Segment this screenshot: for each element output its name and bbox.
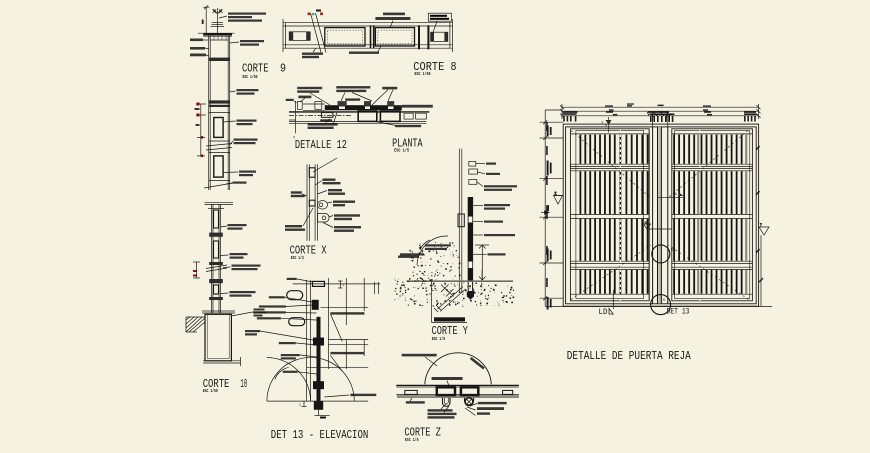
right tube pocket xyxy=(431,32,448,41)
detail circle 12 xyxy=(652,245,670,263)
hanging tick texts below line 3 center xyxy=(649,113,674,122)
svg-text:ESC 1/50: ESC 1/50 xyxy=(203,388,218,394)
weld band 2 xyxy=(209,100,230,103)
top head plate xyxy=(313,281,325,286)
column shaft xyxy=(209,36,230,190)
right annotation TUB LS D low xyxy=(239,171,256,177)
svg-text:12: 12 xyxy=(671,248,675,252)
annotation TIPS DE CHAPAS xyxy=(402,354,437,357)
hanging tick texts below line 3 left xyxy=(563,113,577,121)
section 9 cut slashes xyxy=(311,13,327,53)
svg-text:DET 13: DET 13 xyxy=(667,308,690,317)
annotation PL DIA xyxy=(478,402,507,404)
door outer frame double lines xyxy=(563,124,758,306)
right divider welds xyxy=(418,25,420,49)
white gaps in bar xyxy=(469,217,473,292)
dim line with arrows xyxy=(475,245,489,280)
annotation TUBULAR below cell2 xyxy=(349,52,379,54)
door bottom ground line xyxy=(545,306,772,308)
shaft weld bands xyxy=(209,233,223,237)
base top plate xyxy=(202,311,235,313)
annotation BARRA P xyxy=(477,412,490,414)
section flag marker right (Z) xyxy=(759,223,769,306)
hinge knuckle ellipse xyxy=(318,201,328,210)
anchor bolt diagonal xyxy=(434,285,466,313)
svg-text:4: 4 xyxy=(399,294,401,298)
label B with flag xyxy=(644,221,672,230)
mid tube rect xyxy=(309,200,315,206)
boxed label ANCLAJE xyxy=(432,281,468,322)
mullion gray infill xyxy=(658,127,661,304)
center mullion member B xyxy=(661,127,667,304)
swing diagonal dashed leaf2 bottom xyxy=(669,245,749,300)
tube cell 2 xyxy=(375,28,414,46)
annotation leaders xyxy=(294,90,393,105)
dome arc xyxy=(425,353,492,384)
carriage block left xyxy=(437,387,455,395)
hanging tick texts right end xyxy=(744,113,757,121)
svg-text:1: 1 xyxy=(675,192,677,196)
post double lines xyxy=(459,149,462,293)
annotation TUB LS D upper xyxy=(228,224,247,230)
left annotations xyxy=(285,191,305,231)
vertical bars leaf1 xyxy=(580,135,649,294)
annotation TUB DE CH mid page xyxy=(398,256,419,258)
annotation TEE CORRIDO right xyxy=(350,394,376,396)
latch half round xyxy=(318,214,330,223)
big roller 1 xyxy=(358,111,377,121)
inner window marks xyxy=(214,210,219,228)
tube cell 1 xyxy=(325,28,365,46)
wall double lines left xyxy=(307,164,318,241)
horizontal rails leaf1 xyxy=(570,134,649,294)
annotation DE SEGURID stack xyxy=(428,409,457,418)
rotated dim texts left chain xyxy=(547,126,552,310)
gray guide line xyxy=(481,270,483,288)
left diagonal hatch wall xyxy=(186,317,205,332)
red dim marks xyxy=(193,270,197,277)
door top dimension line 1 xyxy=(562,106,759,108)
leaf 2 frame xyxy=(672,129,753,301)
main slide bar black xyxy=(325,105,402,110)
left track rect xyxy=(405,390,417,394)
dim 2 top right xyxy=(338,281,343,288)
weld band 3 xyxy=(209,105,230,107)
dash-dot center line xyxy=(289,114,352,116)
leaf 1 frame xyxy=(570,129,649,301)
tiny rotated dim text left chain xyxy=(546,122,548,287)
post below ground anchor tip xyxy=(467,292,474,300)
narrow shaft xyxy=(212,205,221,314)
annotation PL rotated xyxy=(470,357,485,370)
upper lock body xyxy=(312,300,319,310)
concrete arc boundary xyxy=(417,236,448,265)
squiggle break line xyxy=(206,265,227,272)
svg-text:9: 9 xyxy=(602,121,604,125)
right side dim ticks xyxy=(756,146,764,283)
svg-text:7: 7 xyxy=(760,223,762,227)
roller small left xyxy=(321,113,333,118)
rail lines xyxy=(396,385,519,394)
right annotation TUB LS D xyxy=(237,89,259,95)
detail circle bottom DET13 xyxy=(651,295,671,315)
bottom annotations xyxy=(308,119,422,129)
section flag marker left (Z) xyxy=(554,192,564,205)
guide blocks on top xyxy=(338,101,395,105)
left dim line xyxy=(196,104,206,156)
svg-text:ESC 1/5: ESC 1/5 xyxy=(405,437,419,443)
label 1 with leader xyxy=(658,192,684,197)
right annotation TUBULAR xyxy=(240,40,264,46)
left plate rect xyxy=(458,214,464,227)
top anchor hook symbol xyxy=(213,8,223,22)
speckle dots xyxy=(402,242,514,307)
swing diagonal dashed leaf1 top xyxy=(571,131,651,199)
column top cap xyxy=(205,202,234,204)
central bolt bar xyxy=(317,317,321,401)
left annotations xyxy=(245,278,300,373)
svg-text:ESC 1/2: ESC 1/2 xyxy=(291,255,304,261)
left dim line at anchor xyxy=(203,5,209,33)
rail double lines xyxy=(289,112,429,124)
ground line xyxy=(267,400,368,402)
annotation DIAG boxed xyxy=(428,13,451,21)
door top dimension line 2 xyxy=(562,110,759,112)
right annotations xyxy=(484,163,517,256)
left annotations xyxy=(400,244,451,255)
swing diagonal dashed leaf2 top xyxy=(668,131,748,199)
svg-text:LD: LD xyxy=(599,308,608,317)
center divider welds xyxy=(370,25,372,48)
X axis mark xyxy=(289,101,296,133)
left annotation SOLDADA CORR xyxy=(190,47,205,50)
annotation TUB LS D 2 xyxy=(230,253,248,259)
svg-text:8: 8 xyxy=(451,60,457,74)
svg-text:ESC 1/50: ESC 1/50 xyxy=(243,74,258,80)
left dim line of door xyxy=(540,110,564,306)
leaf2 dashed centerline xyxy=(699,130,701,302)
stadium slot 2 xyxy=(289,318,305,326)
right track rect xyxy=(503,390,513,394)
svg-text:9: 9 xyxy=(280,62,286,76)
door top dimension line 3 xyxy=(562,115,759,117)
svg-text:CORTE: CORTE xyxy=(242,61,269,75)
svg-text:DETALLE DE PUERTA REJA: DETALLE DE PUERTA REJA xyxy=(567,349,692,363)
annotation TUBULAR below strip xyxy=(302,53,323,59)
top connector rects xyxy=(469,161,476,166)
swing diagonal dashed leaf1 bottom xyxy=(571,245,651,300)
column top plate xyxy=(203,33,232,35)
gray infill strip xyxy=(397,395,519,398)
bolt guide block 2 xyxy=(313,381,324,389)
swing arc big xyxy=(267,357,354,401)
top tube rect xyxy=(309,168,315,177)
svg-text:2: 2 xyxy=(299,403,301,407)
wall annotations TUBO xyxy=(330,312,364,354)
left leaders xyxy=(260,279,317,374)
base block xyxy=(205,314,231,361)
center mullion member A xyxy=(653,127,658,304)
annotation JUNTA DE Po xyxy=(232,265,261,271)
tiny dim texts on top dim lines xyxy=(564,103,757,113)
right annotations xyxy=(323,179,362,232)
top annotations xyxy=(286,86,398,101)
svg-text:DET 13 - ELEVACION: DET 13 - ELEVACION xyxy=(271,428,369,442)
right wall grid xyxy=(307,278,369,371)
frame vertical double lines xyxy=(307,280,311,401)
dim 2 bottom left xyxy=(302,401,307,407)
annotation DESA CIMBRA xyxy=(254,309,267,317)
left annotation PL 1/2x5 1/2 xyxy=(190,54,206,57)
svg-text:10: 10 xyxy=(240,377,247,391)
left tube pocket xyxy=(289,32,310,41)
plate washer symbol xyxy=(211,23,225,34)
bar below ground xyxy=(314,401,330,419)
annotation PL 1/2x6 SOLDADA CORRIDA xyxy=(375,13,410,20)
small rail blocks right xyxy=(404,113,413,119)
leaf1 dashed centerline xyxy=(619,130,621,302)
anchor annotation MUELLE DE PL xyxy=(228,13,266,22)
bottom ground line xyxy=(203,357,241,366)
top diagonal leader xyxy=(313,158,337,172)
outer strip lines xyxy=(283,19,452,52)
right annotation PL 2x2x3/16 xyxy=(402,105,433,108)
dimension end ticks top xyxy=(560,104,761,127)
window frame 1 xyxy=(214,118,223,138)
weld band 1 xyxy=(209,58,230,61)
svg-text:ESC 1/5: ESC 1/5 xyxy=(432,336,446,342)
top horizontal line xyxy=(293,283,380,285)
carriage block right xyxy=(461,387,478,395)
big roller 2 xyxy=(380,111,400,121)
leaders xyxy=(315,181,333,228)
stadium slot 1 xyxy=(287,291,303,300)
left tube profile xyxy=(297,102,302,110)
annotation PLATE right bold xyxy=(477,407,504,410)
svg-text:2: 2 xyxy=(343,283,345,287)
right annotation SOLDADO xyxy=(233,182,247,184)
svg-text:CORTE Y: CORTE Y xyxy=(432,324,469,338)
svg-text:4: 4 xyxy=(605,124,607,128)
svg-text:Z: Z xyxy=(555,192,557,196)
swing arc crossing xyxy=(267,358,311,402)
bolt guide block 1 xyxy=(313,338,324,346)
annotation TUBULAR Po xyxy=(230,291,256,297)
leaders right xyxy=(473,164,486,255)
wheel right xyxy=(465,398,474,406)
hanger U left xyxy=(443,398,451,407)
white notches in bar xyxy=(339,106,394,109)
vertical bars leaf2 xyxy=(673,135,747,294)
small arc left xyxy=(275,367,289,379)
svg-text:ESC 1/50: ESC 1/50 xyxy=(415,71,431,77)
small arrow tick mid chain xyxy=(541,206,549,215)
mid rail lines xyxy=(204,113,233,189)
red and cyan reference marks xyxy=(308,10,324,16)
ground gray line xyxy=(407,280,514,282)
window frame 2 xyxy=(214,156,223,177)
red reference marks xyxy=(197,103,204,158)
left annotation EL 40 xyxy=(190,39,203,42)
right annotation CUADR PERF xyxy=(234,139,258,145)
svg-text:DETALLE 12: DETALLE 12 xyxy=(295,138,347,152)
svg-text:4: 4 xyxy=(396,282,398,286)
right annotation TUB LS D mid xyxy=(237,120,257,126)
annotation CHAPA left xyxy=(406,401,425,403)
post black bar xyxy=(468,197,473,296)
horizontal rails leaf2 xyxy=(672,134,753,294)
svg-text:ESC 1/5: ESC 1/5 xyxy=(394,148,409,154)
tiny dim numbers xyxy=(609,105,712,116)
marker 9/4 above door xyxy=(602,117,612,133)
annotation TEE bold xyxy=(432,377,463,380)
